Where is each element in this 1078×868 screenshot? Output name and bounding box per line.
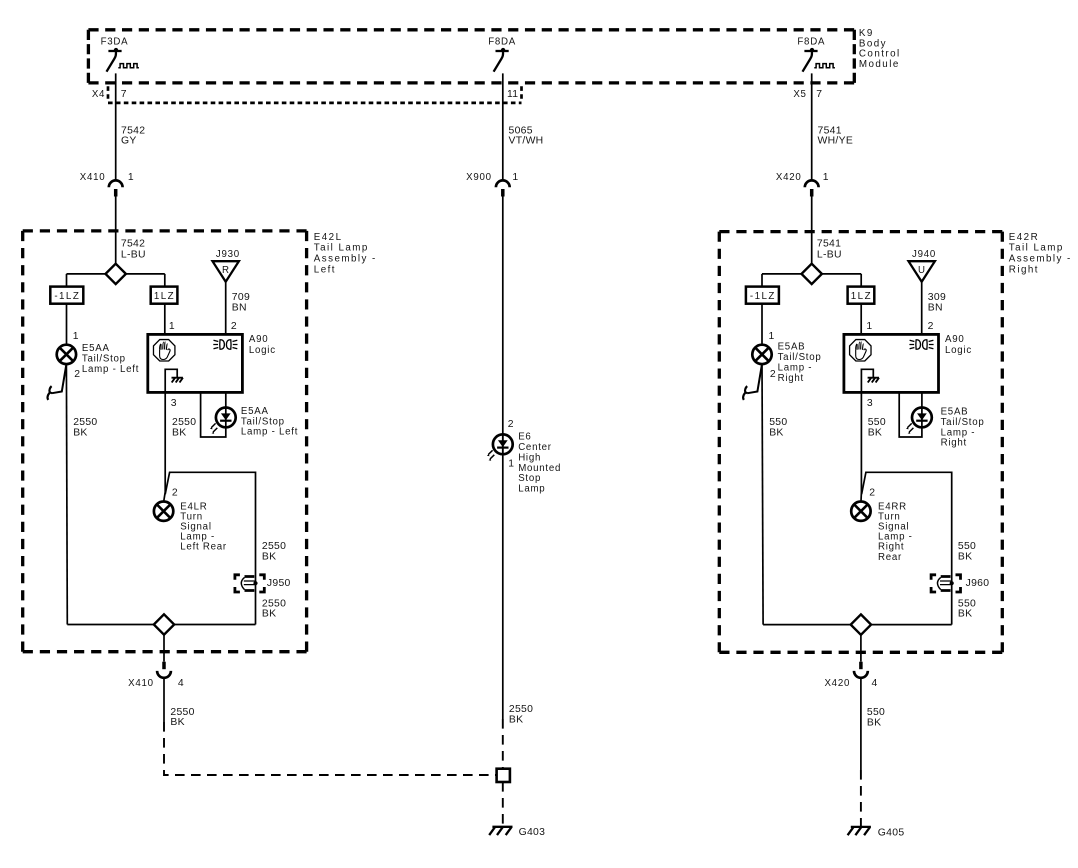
svg-text:1: 1 [823, 172, 829, 183]
svg-text:BK: BK [172, 427, 186, 438]
svg-text:Right: Right [778, 373, 804, 384]
svg-text:2: 2 [869, 488, 875, 499]
svg-text:BK: BK [73, 427, 87, 438]
svg-text:A90: A90 [945, 334, 965, 345]
svg-text:Stop: Stop [518, 473, 541, 484]
svg-text:2: 2 [928, 321, 934, 332]
splice J930 (triangle R) [213, 249, 240, 282]
svg-text:E6: E6 [518, 432, 531, 443]
LED E5AB Tail/Stop Lamp - Right [906, 407, 985, 449]
wire 7542 L-BU into E42L [116, 196, 146, 264]
svg-text:Tail Lamp: Tail Lamp [314, 243, 369, 254]
svg-text:7541: 7541 [817, 239, 841, 250]
svg-text:Lamp -: Lamp - [778, 362, 813, 373]
svg-text:Tail/Stop: Tail/Stop [82, 354, 126, 365]
svg-text:3: 3 [171, 398, 177, 409]
svg-text:2: 2 [172, 488, 178, 499]
svg-text:BN: BN [928, 303, 943, 314]
svg-text:X420: X420 [824, 678, 850, 689]
svg-text:BK: BK [868, 427, 882, 438]
fuse output F8DA (center) [488, 37, 516, 72]
svg-text:X5: X5 [793, 89, 806, 100]
svg-text:Lamp - Left: Lamp - Left [241, 427, 298, 438]
wire loop A90 to LED E5AB [899, 392, 922, 437]
fuse output F3DA [101, 37, 139, 72]
connector X420 pin 1 [776, 172, 829, 197]
LED E6 Center High Mounted Stop Lamp [487, 419, 561, 495]
svg-text:550: 550 [868, 417, 886, 428]
svg-text:2550: 2550 [170, 707, 194, 718]
svg-text:Assembly -: Assembly - [1009, 254, 1072, 265]
lamp E5AA Tail/Stop Lamp - Left [57, 343, 139, 380]
svg-text:F8DA: F8DA [797, 37, 825, 48]
svg-text:E5AB: E5AB [778, 341, 806, 352]
svg-text:Tail Lamp: Tail Lamp [1009, 243, 1064, 254]
svg-text:4: 4 [178, 678, 184, 689]
wire 7541 L-BU into E42R [812, 196, 842, 264]
svg-text:Rear: Rear [878, 552, 902, 563]
connector X410 pin 4 [128, 662, 184, 689]
svg-text:2550: 2550 [509, 704, 533, 715]
svg-text:G405: G405 [878, 827, 905, 838]
svg-text:2: 2 [508, 419, 514, 430]
node: ground bus diamond right [763, 614, 952, 634]
svg-text:A90: A90 [249, 334, 269, 345]
pigtail case ground at E5AB [743, 364, 762, 400]
svg-text:3: 3 [867, 398, 873, 409]
svg-text:Left Rear: Left Rear [180, 542, 227, 553]
svg-text:Tail/Stop: Tail/Stop [941, 417, 985, 428]
svg-text:J960: J960 [966, 578, 990, 589]
wire (hidden) E6 to splice pack [502, 719, 504, 769]
svg-text:7542: 7542 [121, 239, 145, 250]
wire below J950 2550 BK [262, 598, 286, 619]
svg-text:E42R: E42R [1009, 232, 1039, 243]
wire (hidden) X420-4 to G405 [860, 770, 862, 826]
label E42R Tail Lamp Assembly - Right [1009, 232, 1072, 275]
svg-text:Assembly -: Assembly - [314, 254, 377, 265]
svg-text:2: 2 [231, 321, 237, 332]
label X5 pin 7 [793, 89, 822, 100]
connector X410 pin 1 [80, 172, 134, 197]
svg-text:Center: Center [518, 442, 552, 453]
svg-text:-1LZ: -1LZ [750, 291, 776, 302]
svg-text:Right: Right [1009, 264, 1039, 275]
svg-text:7: 7 [121, 89, 127, 100]
svg-text:Lamp -: Lamp - [941, 427, 976, 438]
icon stop-hand octagon in A90 right [850, 340, 871, 361]
wire -1LZ to lamp E5AA pin 1 [67, 304, 79, 345]
svg-text:High: High [518, 452, 541, 463]
internal ground of A90 left [165, 369, 183, 392]
svg-text:1: 1 [169, 321, 175, 332]
svg-text:1: 1 [508, 458, 514, 469]
svg-text:BK: BK [769, 427, 783, 438]
svg-text:Lamp: Lamp [518, 484, 545, 495]
svg-text:Logic: Logic [945, 345, 972, 356]
internal ground of A90 right [861, 369, 879, 392]
logic module A90 left (box) [148, 334, 276, 393]
svg-text:2: 2 [74, 369, 80, 380]
connector cavity -1LZ left [50, 287, 83, 304]
lamp E4RR Turn Signal Lamp - Right Rear [851, 488, 912, 563]
svg-text:Right: Right [941, 438, 967, 449]
svg-text:BK: BK [958, 551, 972, 562]
wire branch from pin2 E4RR to right leg, 550 BK [862, 472, 977, 624]
svg-text:E5AB: E5AB [941, 407, 969, 418]
icon stop-hand octagon in A90 left [153, 340, 174, 361]
svg-text:X410: X410 [128, 678, 154, 689]
svg-text:VT/WH: VT/WH [509, 136, 544, 147]
svg-text:1LZ: 1LZ [154, 291, 175, 302]
svg-text:R: R [222, 265, 230, 276]
wire -1LZ to lamp E5AB pin 1 [762, 304, 775, 345]
svg-text:J930: J930 [216, 249, 240, 260]
svg-text:F8DA: F8DA [488, 37, 516, 48]
icon lamps in A90 right [909, 340, 933, 349]
label K9 Body Control Module [859, 28, 901, 70]
svg-text:1: 1 [866, 321, 872, 332]
lamp E4LR Turn Signal Lamp - Left Rear [154, 488, 227, 553]
wire 1LZ to A90 pin 1 right [861, 304, 933, 335]
svg-text:1: 1 [73, 331, 79, 342]
wire 7541 WH/YE from F8DA to X420 [812, 73, 853, 180]
svg-text:Module: Module [859, 59, 900, 70]
svg-text:J940: J940 [912, 249, 936, 260]
icon lamps in A90 left [213, 340, 237, 349]
LED E5AA Tail/Stop Lamp - Left [210, 406, 298, 438]
svg-text:2550: 2550 [73, 417, 97, 428]
pigtail case ground at E5AA [47, 364, 66, 400]
wire 7542 GY from F3DA to X410 [116, 73, 146, 180]
svg-text:U: U [918, 265, 926, 276]
svg-text:Left: Left [314, 264, 336, 275]
svg-text:E5AA: E5AA [82, 343, 110, 354]
wire 1LZ to A90 pin 1 left [165, 304, 237, 335]
svg-text:550: 550 [958, 541, 976, 552]
connector cavity 1LZ left [151, 287, 178, 304]
svg-text:L-BU: L-BU [121, 249, 146, 260]
connector cavity -1LZ right [746, 287, 779, 304]
wire lamp pin 2 down to bus, label 2550 BK [66, 364, 97, 624]
svg-text:BN: BN [232, 303, 247, 314]
svg-text:X410: X410 [80, 172, 106, 183]
svg-text:2550: 2550 [172, 417, 196, 428]
svg-text:X420: X420 [776, 172, 802, 183]
wire A90 pin 3 to E4RR, label 550 BK [861, 392, 886, 501]
wire to -1LZ left [66, 274, 68, 287]
svg-text:-1LZ: -1LZ [54, 291, 80, 302]
wire 550 BK below X420 [861, 678, 885, 770]
svg-text:BK: BK [509, 714, 523, 725]
svg-text:550: 550 [958, 598, 976, 609]
assembly E42R Tail Lamp Assembly - Right (dashed box) [719, 232, 1002, 653]
wire branch from pin2 E4LR to right leg, 2550 BK [165, 472, 286, 624]
wire to -1LZ right [761, 274, 763, 287]
svg-text:Tail/Stop: Tail/Stop [778, 352, 822, 363]
wire to 1LZ left [164, 274, 166, 287]
wire 709 BN from J930 to A90 [226, 282, 250, 335]
wire (hidden) splice pack to G403 [502, 782, 504, 826]
node: distribution diamond left [67, 264, 165, 284]
svg-text:J950: J950 [267, 578, 291, 589]
node: distribution diamond right [762, 264, 861, 284]
wire loop A90 to LED E5AA [201, 392, 226, 437]
node: ground bus diamond left [67, 614, 255, 634]
svg-text:Mounted: Mounted [518, 463, 561, 474]
splice pack (square) [497, 769, 510, 782]
wire below J960 550 BK [958, 598, 976, 619]
wire (hidden) X410-4 to splice pack [164, 722, 497, 775]
wire 309 BN from J940 to A90 [922, 282, 946, 335]
label X4 pin 7 [92, 89, 127, 100]
svg-text:BK: BK [958, 609, 972, 620]
svg-text:E42L: E42L [314, 232, 343, 243]
svg-text:BK: BK [867, 717, 881, 728]
fuse output F8DA (right) [797, 37, 834, 72]
svg-text:WH/YE: WH/YE [818, 136, 854, 147]
logic module A90 right (box) [844, 334, 972, 393]
svg-text:E5AA: E5AA [241, 406, 269, 417]
wire A90 pin 3 to E4LR, label 2550 BK [164, 392, 197, 501]
svg-text:4: 4 [872, 678, 878, 689]
svg-text:309: 309 [928, 292, 946, 303]
svg-text:2: 2 [770, 369, 776, 380]
svg-text:G403: G403 [519, 827, 546, 838]
svg-text:BK: BK [170, 717, 184, 728]
svg-text:1: 1 [769, 331, 775, 342]
label E42L Tail Lamp Assembly - Left [314, 232, 377, 275]
svg-text:BK: BK [262, 551, 276, 562]
svg-text:2550: 2550 [262, 541, 286, 552]
connector row X4 (dotted box) [108, 86, 522, 103]
svg-text:GY: GY [121, 136, 137, 147]
wire 2550 BK below X410 [164, 678, 195, 728]
svg-text:550: 550 [867, 707, 885, 718]
svg-text:Logic: Logic [249, 345, 276, 356]
label X4 pin 11 [507, 89, 518, 100]
svg-text:BK: BK [262, 609, 276, 620]
ground G403 [489, 827, 545, 838]
svg-text:1: 1 [128, 172, 134, 183]
connector X900 pin 1 [466, 172, 518, 197]
wire 5065 VT/WH from F8DA to X900 [503, 73, 544, 180]
connector cavity 1LZ right [848, 287, 875, 304]
wire lamp pin 2 down to bus, label 550 BK [762, 364, 787, 624]
svg-text:F3DA: F3DA [101, 37, 129, 48]
svg-text:K9: K9 [859, 28, 874, 39]
svg-text:7: 7 [816, 89, 822, 100]
assembly E42L Tail Lamp Assembly - Left (dashed box) [23, 231, 307, 652]
svg-text:550: 550 [769, 417, 787, 428]
svg-text:X900: X900 [466, 172, 492, 183]
svg-text:Lamp - Left: Lamp - Left [82, 364, 139, 375]
svg-text:L-BU: L-BU [817, 249, 842, 260]
svg-text:1LZ: 1LZ [851, 291, 872, 302]
svg-text:2550: 2550 [262, 598, 286, 609]
svg-text:X4: X4 [92, 89, 105, 100]
svg-text:11: 11 [507, 89, 518, 100]
ground G405 [848, 827, 905, 838]
splice J940 (triangle U) [909, 249, 937, 282]
wire diamond to X410 pin 4 [163, 634, 165, 661]
wire to 1LZ right [860, 274, 862, 287]
wire diamond to X420 pin 4 [860, 635, 862, 662]
splice J960 [931, 575, 989, 592]
svg-text:1: 1 [512, 172, 518, 183]
lamp E5AB Tail/Stop Lamp - Right [752, 341, 821, 383]
connector X420 pin 4 [824, 662, 877, 689]
module K9 Body Control Module (dashed box) [88, 30, 854, 83]
svg-text:709: 709 [232, 292, 250, 303]
wire X900 to E6 [502, 196, 504, 454]
svg-text:Tail/Stop: Tail/Stop [241, 416, 285, 427]
wire E6 pin 1 down, 2550 BK [503, 434, 533, 725]
splice J950 [235, 575, 291, 592]
